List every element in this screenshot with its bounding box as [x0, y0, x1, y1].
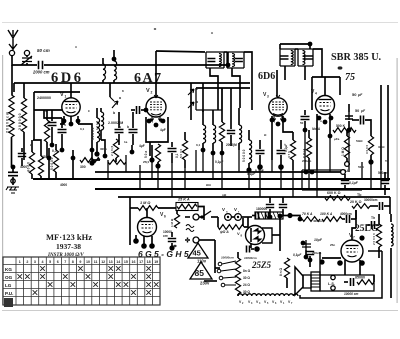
svg-text:25Z5: 25Z5: [251, 260, 271, 270]
wire: [51, 110, 53, 121]
junction V2 pin3: [161, 119, 166, 124]
voltage triangle 85: [190, 262, 212, 279]
svg-text:25LG: 25LG: [355, 224, 379, 234]
wire: [309, 256, 311, 260]
wire V7 grid feed: [355, 210, 357, 228]
wire: [283, 116, 293, 132]
wire: [389, 197, 391, 214]
wire: [171, 243, 173, 246]
svg-text:600 K Ω: 600 K Ω: [327, 191, 341, 195]
junction: [368, 159, 373, 164]
wire: [212, 143, 214, 153]
scan edge left: [2, 55, 3, 305]
wire: [176, 211, 178, 215]
junction: [304, 255, 309, 260]
wire AVC rail lower: [11, 137, 13, 167]
wire V1 plate: [70, 92, 72, 98]
wire: [370, 125, 372, 136]
wire: [286, 278, 288, 288]
table X mark: [40, 266, 45, 271]
table X mark: [124, 282, 129, 287]
svg-text:0,1μF: 0,1μF: [215, 160, 223, 164]
resistor 25K: [177, 204, 197, 209]
wire det box left: [311, 77, 313, 110]
table X mark: [40, 274, 45, 279]
wire V7 grid: [352, 228, 356, 240]
wire: [390, 214, 392, 222]
wire bus y88: [196, 87, 250, 89]
wire: [352, 119, 359, 121]
capacitor 0.1uF: [341, 181, 349, 184]
wire: [251, 248, 254, 250]
wire: [244, 217, 248, 227]
wire: [146, 208, 148, 218]
wire tankB to bus: [244, 52, 252, 83]
antenna: [8, 30, 18, 50]
svg-text:8 n Ω: 8 n Ω: [279, 268, 283, 276]
svg-text:200cm: 200cm: [302, 159, 312, 163]
wire OT to plate: [319, 252, 321, 275]
svg-text:30000cm: 30000cm: [364, 198, 378, 202]
resistor mains dropper: [235, 258, 240, 294]
capacitor filter B: [279, 205, 287, 208]
svg-text:1 M Ω: 1 M Ω: [341, 147, 345, 156]
tube V2 6A7: [146, 95, 166, 121]
wire bus y179: [33, 178, 108, 180]
svg-text:2.0002(M: 2.0002(M: [108, 121, 123, 125]
svg-text:5ΩΩ: 5ΩΩ: [356, 139, 363, 143]
junction: [211, 151, 216, 156]
table X mark: [146, 266, 151, 271]
table X mark: [25, 274, 30, 279]
wire: [280, 155, 282, 165]
wire selector feed: [214, 240, 216, 273]
wire: [135, 235, 137, 241]
svg-text:LG: LG: [5, 283, 12, 288]
svg-text:2 0 0 0 0 c m: 2 0 0 0 0 c m: [6, 112, 10, 133]
wire: [151, 236, 153, 246]
ink speck: [75, 46, 77, 48]
junction: [50, 143, 55, 148]
wire: [211, 216, 218, 218]
wire: [102, 80, 104, 83]
secondary circuit box: [320, 275, 374, 291]
wire: [61, 134, 63, 150]
svg-text:μF: μF: [357, 93, 363, 97]
wire: [348, 104, 350, 112]
wire: [248, 163, 250, 168]
svg-text:5 0 0 0: 5 0 0 0: [179, 148, 183, 158]
wire: [100, 108, 102, 112]
wire: [292, 160, 294, 170]
wire grid bus: [14, 82, 250, 84]
wire: [378, 214, 380, 224]
wire bus y189: [95, 188, 390, 190]
wire: [96, 108, 98, 118]
mains terminal minus: [185, 216, 190, 218]
wire: [51, 127, 53, 145]
svg-text:500 K: 500 K: [336, 124, 346, 128]
resistor 1M eye: [174, 214, 179, 228]
wire: [304, 110, 306, 115]
wire: [308, 130, 310, 138]
tube 25Z5: [246, 226, 265, 245]
junction: [201, 148, 206, 153]
wire node: [48, 148, 50, 179]
table X mark: [33, 290, 38, 295]
svg-text:18: 18: [147, 260, 151, 264]
tube V4 75: [316, 96, 335, 115]
terminal tone: [341, 170, 346, 175]
svg-text:1: 1: [19, 260, 21, 264]
junction: [89, 160, 94, 165]
wire: [118, 112, 120, 128]
svg-text:17: 17: [139, 260, 143, 264]
svg-text:4 0 0 0: 4 0 0 0: [27, 162, 31, 172]
svg-text:7: 7: [64, 260, 66, 264]
wire: [198, 207, 204, 221]
wire: [100, 130, 102, 140]
junction grid node: [359, 235, 364, 240]
junction V4 pin: [317, 116, 322, 121]
svg-text:2: 2: [151, 91, 153, 95]
svg-text:13: 13: [109, 260, 113, 264]
svg-text:KG: KG: [5, 267, 12, 272]
tube V1 6D6: [62, 98, 80, 116]
wire: [365, 120, 371, 125]
wire: [309, 260, 311, 267]
wire mains plus feed: [199, 239, 215, 241]
junction: [71, 156, 76, 161]
junction: [278, 164, 284, 170]
svg-text:6: 6: [57, 260, 59, 264]
terminal PU: [345, 162, 350, 167]
wire: [248, 130, 250, 140]
table X mark: [71, 282, 76, 287]
junction: [144, 108, 149, 113]
coil L3: [103, 64, 106, 80]
wire: [284, 66, 286, 80]
wire: [61, 118, 63, 128]
junction V1 pin: [62, 119, 67, 124]
svg-text:50 cm: 50 cm: [37, 48, 50, 53]
svg-text:4000cm: 4000cm: [313, 219, 324, 223]
svg-text:0,1μF: 0,1μF: [293, 253, 302, 257]
wire: [26, 56, 28, 58]
speaker magnet: [303, 275, 311, 288]
junction B+: [278, 214, 283, 219]
resistor 20K: [352, 204, 370, 209]
IF shield box: [196, 88, 222, 110]
resistor 20000: [9, 95, 14, 137]
resistor 500k: [333, 128, 356, 133]
wire: [55, 172, 57, 179]
svg-text:5 0 0 0 0: 5 0 0 0 0: [242, 149, 246, 162]
wire right rail: [387, 85, 389, 179]
wire: [131, 109, 135, 111]
wire: [12, 169, 14, 172]
svg-text:b: b: [127, 125, 129, 129]
resistor 1M: [344, 136, 349, 158]
capacitor line bypass A: [256, 213, 259, 220]
svg-text:4: 4: [42, 260, 44, 264]
svg-text:10: 10: [86, 260, 90, 264]
svg-text:a: a: [119, 125, 121, 129]
svg-text:1 M Ω: 1 M Ω: [140, 201, 150, 205]
capacitor C20: [168, 239, 176, 242]
IFT1 tank A capacitor: [207, 59, 215, 62]
svg-text:1937-38: 1937-38: [56, 242, 81, 251]
table X mark: [93, 282, 98, 287]
wire: [102, 58, 104, 64]
svg-text:8: 8: [72, 260, 74, 264]
wire: [351, 218, 356, 220]
wire: [259, 140, 261, 149]
wire V1 pin2: [77, 116, 79, 124]
wire: [26, 63, 28, 65]
wire: [113, 80, 115, 83]
antenna terminal A2: [24, 50, 29, 55]
wire: [132, 134, 134, 145]
wire: [149, 142, 151, 156]
capacitor out: [351, 278, 354, 286]
mains terminal plus: [185, 238, 190, 243]
scan edge right: [397, 58, 398, 303]
junction V2 pin: [147, 119, 152, 124]
resistor 50k: [155, 144, 160, 162]
table row labels: [5, 267, 13, 296]
junction: [308, 42, 313, 47]
coil L6: [203, 125, 206, 143]
wire: [157, 162, 159, 166]
capacitor AVC bypass: [8, 172, 18, 175]
wire: [96, 142, 98, 152]
wire: [212, 110, 214, 125]
svg-text:ψΩ A: ψΩ A: [220, 230, 229, 234]
wire bus y197: [118, 196, 390, 198]
coil L7: [213, 125, 216, 143]
wire switch stem: [190, 83, 192, 120]
wire: [221, 142, 223, 153]
wire: [78, 124, 92, 150]
junction: [246, 167, 251, 172]
wire after tank down: [251, 83, 253, 110]
svg-text:5 0 a: 5 0 a: [144, 151, 148, 158]
svg-text:5 0 0 0 0: 5 0 0 0 0: [50, 157, 54, 170]
capacitor 20000: [372, 221, 375, 229]
junction: [268, 215, 273, 220]
wire rect feed: [242, 218, 244, 226]
coil L2: [97, 118, 100, 142]
svg-text:70 K A: 70 K A: [302, 212, 313, 216]
svg-text:50: 50: [352, 92, 357, 97]
wire: [241, 216, 252, 218]
wire: [304, 121, 306, 130]
wire tank drop 3: [221, 88, 223, 110]
wire: [70, 83, 72, 92]
svg-text:0,1μF: 0,1μF: [284, 144, 288, 152]
IFT1 tank B capacitor: [235, 59, 243, 62]
voltage selector switch: [217, 261, 236, 287]
svg-text:300: 300: [80, 165, 86, 169]
resistor 100K: [322, 217, 342, 222]
IFT2 tank A capacitor: [281, 56, 289, 59]
antenna terminal A1: [9, 50, 14, 55]
wire bracket out: [272, 234, 280, 236]
wire: [370, 205, 378, 207]
wire antenna riser: [227, 52, 229, 65]
ground: [6, 187, 19, 193]
wire: [344, 174, 346, 179]
resistor heater surge: [284, 258, 289, 278]
svg-text:P.U.: P.U.: [5, 291, 13, 296]
wire: [237, 294, 239, 296]
resistor shunt: [218, 225, 244, 230]
wire: [12, 177, 14, 185]
svg-text:2 0 0 0 0: 2 0 0 0 0: [372, 233, 376, 245]
svg-text:50Ω: 50Ω: [358, 165, 364, 169]
wire V3 cathode: [271, 116, 273, 160]
svg-text:3ΩΩ: 3ΩΩ: [378, 145, 385, 149]
capacitor C11: [168, 149, 177, 152]
junction: [257, 164, 263, 170]
svg-text:OG: OG: [5, 275, 13, 280]
wire: [199, 216, 202, 218]
wire: [115, 158, 117, 162]
wire: [23, 132, 25, 160]
IFT2 tank B coil: [303, 51, 305, 65]
capacitor heater bypass: [306, 252, 314, 255]
capacitor 2000cm: [39, 61, 43, 69]
wire: [31, 140, 33, 152]
wire: [217, 217, 219, 227]
svg-text:0,1μF: 0,1μF: [349, 181, 359, 185]
wire: [269, 209, 271, 217]
table X mark: [154, 282, 159, 287]
waveband switch c: [188, 89, 194, 95]
wire: [171, 232, 173, 237]
wire: [384, 172, 386, 179]
junction: [149, 157, 154, 162]
wire: [346, 130, 348, 136]
svg-text:L.S.: L.S.: [328, 282, 335, 286]
resistor 300: [80, 158, 100, 163]
wire: [282, 197, 284, 203]
junction V1 pin2: [69, 122, 74, 127]
svg-text:4 7 0: 4 7 0: [287, 151, 291, 158]
wire: [231, 216, 234, 218]
junction V3 pin: [270, 118, 275, 123]
capacitor C5: [58, 130, 67, 133]
wire: [46, 142, 48, 158]
svg-text:75: 75: [345, 72, 355, 83]
wire: [13, 83, 15, 92]
svg-text:14: 14: [116, 260, 120, 264]
wire: [55, 144, 57, 150]
svg-text:19: 19: [154, 260, 158, 264]
resistor 600K: [325, 196, 350, 201]
heater string: [238, 294, 298, 296]
pilot lamp Vr: [235, 214, 242, 221]
terminal LS2: [331, 286, 335, 290]
terminal LS1: [331, 275, 335, 279]
junction ballast out: [287, 213, 292, 218]
capacitor C10: [137, 106, 140, 114]
junction V4 pin2: [323, 120, 328, 125]
wire bandfilter left: [33, 92, 35, 140]
wire AVC rail upper: [11, 65, 13, 95]
wire: [72, 150, 74, 179]
wire: [269, 197, 271, 203]
junction: [328, 134, 333, 139]
wire: [184, 132, 186, 140]
junction: [319, 259, 324, 264]
svg-text:10μF: 10μF: [314, 238, 323, 242]
wire rect cathode: [250, 244, 252, 248]
wire: [113, 50, 115, 61]
wire: [279, 44, 281, 49]
junction: [303, 128, 308, 133]
tube V7 25LG: [341, 240, 363, 262]
svg-text:2000(M: 2000(M: [226, 143, 237, 147]
svg-text:8n Ω: 8n Ω: [243, 269, 251, 273]
wire: [355, 210, 357, 219]
waveband switch a: [110, 97, 118, 108]
capacitor C12: [227, 131, 235, 134]
wire right rail down: [390, 248, 392, 298]
svg-text:Ta: Ta: [385, 159, 389, 163]
table X mark: [131, 274, 136, 279]
junction antenna coil tap: [226, 63, 231, 68]
svg-text:3: 3: [267, 95, 269, 99]
svg-text:10000cm: 10000cm: [244, 256, 257, 260]
wire: [238, 108, 240, 125]
IFT1 tank B coil: [232, 54, 234, 67]
junction osc top: [112, 57, 117, 62]
wire: [344, 185, 346, 190]
wire: [33, 140, 41, 156]
wire rect B+ drop: [279, 216, 281, 251]
terminal gnd link: [11, 179, 15, 183]
junction AVC: [11, 165, 16, 170]
wire: [238, 143, 240, 150]
wire: [132, 112, 134, 128]
junction: [103, 154, 108, 159]
wire right box side: [313, 49, 322, 77]
wire: [348, 121, 350, 130]
svg-text:50: 50: [300, 121, 304, 125]
wire det box right: [339, 77, 341, 95]
wire: [92, 150, 100, 160]
IFT2 tank A coil: [291, 51, 293, 65]
mains switch: [202, 211, 211, 217]
capacitor 50pF: [361, 116, 364, 125]
svg-text:c: c: [88, 109, 90, 113]
wire: [304, 66, 306, 80]
wire: [290, 216, 300, 220]
wire: [230, 135, 232, 146]
resistor R11: [182, 140, 187, 160]
junction: [60, 148, 65, 153]
table X mark: [108, 274, 113, 279]
wire tankB down: [232, 68, 240, 108]
wire: [143, 237, 145, 247]
svg-text:1: 1: [65, 95, 67, 99]
wire: [329, 114, 331, 136]
svg-text:7: 7: [353, 236, 355, 240]
svg-text:15: 15: [124, 260, 128, 264]
ink speck: [186, 239, 189, 241]
